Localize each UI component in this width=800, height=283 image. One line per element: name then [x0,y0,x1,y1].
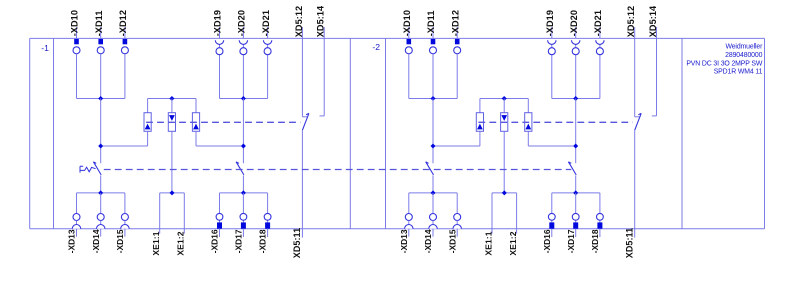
svg-text:-XD16: -XD16 [210,229,220,253]
svg-text:-XD10: -XD10 [402,10,412,36]
svg-text:-XD14: -XD14 [91,229,101,253]
svg-text:-XD11: -XD11 [426,11,436,37]
svg-text:XE1:1: XE1:1 [483,231,493,255]
svg-text:-XD16: -XD16 [542,229,552,253]
svg-text:XD5:11: XD5:11 [624,228,634,258]
svg-text:-XD19: -XD19 [545,10,555,36]
svg-text:XE1:1: XE1:1 [151,231,161,255]
svg-text:-XD21: -XD21 [593,10,603,36]
svg-text:SPD1R WM4 11: SPD1R WM4 11 [714,69,763,76]
svg-text:-XD11: -XD11 [94,11,104,37]
svg-text:-XD17: -XD17 [566,229,576,253]
svg-text:XD5:14: XD5:14 [648,5,658,37]
svg-text:-XD12: -XD12 [118,10,128,36]
svg-text:-XD15: -XD15 [115,229,125,253]
svg-text:-2: -2 [372,42,380,52]
svg-text:-XD18: -XD18 [590,229,600,253]
svg-text:-1: -1 [41,43,49,53]
svg-text:XD5:12: XD5:12 [294,6,304,37]
svg-text:XE1:2: XE1:2 [508,231,518,255]
svg-text:-XD13: -XD13 [67,229,77,253]
svg-text:PVN DC 3I 3O 2MPP SW: PVN DC 3I 3O 2MPP SW [686,60,763,67]
svg-text:-XD17: -XD17 [234,229,244,253]
svg-text:XE1:2: XE1:2 [176,231,186,255]
svg-text:-XD20: -XD20 [237,10,247,36]
svg-text:-XD15: -XD15 [447,229,457,253]
svg-text:-XD18: -XD18 [258,229,268,253]
svg-text:-XD12: -XD12 [450,10,460,36]
svg-text:-XD19: -XD19 [213,10,223,36]
svg-text:-XD14: -XD14 [423,229,433,253]
svg-text:XD5:14: XD5:14 [316,5,326,37]
svg-text:-XD20: -XD20 [569,10,579,36]
svg-text:Weidmueller: Weidmueller [725,44,763,51]
svg-text:XD5:12: XD5:12 [626,6,636,37]
svg-text:-XD10: -XD10 [70,10,80,36]
svg-text:XD5:11: XD5:11 [292,228,302,258]
svg-text:-XD21: -XD21 [261,10,271,36]
svg-text:2890480000: 2890480000 [725,52,762,59]
svg-text:-XD13: -XD13 [399,229,409,253]
